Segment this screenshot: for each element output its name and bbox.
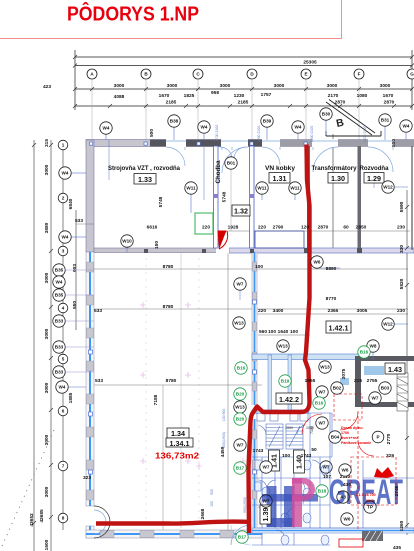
svg-text:B19: B19	[281, 379, 290, 384]
svg-text:1.42.1: 1.42.1	[329, 324, 349, 333]
svg-text:220: 220	[202, 225, 210, 231]
svg-text:W13: W13	[320, 365, 330, 370]
svg-text:435: 435	[393, 545, 401, 551]
svg-text:315: 315	[44, 139, 50, 147]
svg-text:W4: W4	[403, 124, 410, 129]
svg-text:W7: W7	[263, 465, 270, 470]
svg-text:W7: W7	[319, 390, 326, 395]
svg-text:TP: TP	[367, 505, 373, 510]
svg-text:F: F	[358, 72, 361, 77]
svg-text:8780: 8780	[166, 378, 177, 384]
svg-text:1700: 1700	[341, 431, 349, 435]
svg-text:W11: W11	[290, 186, 300, 191]
svg-text:W13: W13	[235, 405, 245, 410]
svg-text:958: 958	[211, 90, 219, 96]
svg-text:1640: 1640	[278, 329, 289, 335]
svg-text:W13: W13	[234, 321, 244, 326]
svg-text:W11: W11	[257, 186, 267, 191]
svg-text:2850: 2850	[356, 225, 367, 231]
svg-text:1928: 1928	[228, 225, 239, 231]
svg-text:5748: 5748	[158, 196, 164, 207]
svg-text:1200 2100: 1200 2100	[363, 126, 367, 143]
svg-text:1: 1	[62, 143, 65, 148]
svg-text:3880: 3880	[44, 222, 50, 233]
svg-text:1.33: 1.33	[138, 175, 152, 184]
svg-text:1550: 1550	[285, 426, 293, 430]
svg-text:500: 500	[391, 139, 397, 147]
svg-text:1080: 1080	[357, 93, 368, 99]
svg-text:2746: 2746	[394, 485, 400, 496]
svg-text:1700 2100: 1700 2100	[215, 125, 219, 142]
svg-text:PÔDORYS 1.NP: PÔDORYS 1.NP	[67, 2, 199, 26]
svg-text:323: 323	[83, 475, 91, 481]
svg-text:W4: W4	[62, 171, 69, 176]
svg-text:B38: B38	[170, 119, 179, 124]
svg-text:3000: 3000	[114, 83, 125, 89]
svg-text:1.29: 1.29	[367, 174, 381, 183]
svg-text:B04: B04	[331, 435, 340, 440]
svg-text:W4: W4	[201, 125, 208, 130]
svg-text:W4: W4	[103, 126, 110, 131]
svg-text:3000: 3000	[327, 83, 338, 89]
svg-text:P: P	[376, 435, 379, 440]
svg-text:B33: B33	[55, 345, 64, 350]
svg-text:230: 230	[397, 308, 405, 314]
svg-text:230: 230	[397, 225, 405, 231]
svg-text:560: 560	[259, 329, 267, 335]
svg-text:1230: 1230	[234, 93, 245, 99]
svg-text:6: 6	[62, 409, 65, 414]
svg-text:3: 3	[62, 249, 65, 254]
svg-text:215: 215	[354, 378, 362, 384]
svg-text:2870: 2870	[318, 225, 329, 231]
svg-text:1.43: 1.43	[388, 365, 402, 374]
svg-text:B01: B01	[227, 161, 236, 166]
svg-text:2185: 2185	[238, 100, 249, 106]
svg-text:W12: W12	[383, 322, 393, 327]
svg-text:8780: 8780	[163, 304, 174, 310]
svg-text:6616: 6616	[147, 225, 158, 231]
svg-text:W11: W11	[186, 186, 196, 191]
svg-text:25305: 25305	[303, 60, 317, 66]
svg-text:W7: W7	[237, 443, 244, 448]
svg-text:1.42.2: 1.42.2	[279, 395, 299, 404]
svg-text:3000: 3000	[44, 486, 50, 497]
svg-text:2365: 2365	[328, 308, 339, 314]
svg-text:2790: 2790	[273, 225, 284, 231]
svg-text:1600: 1600	[44, 539, 50, 550]
svg-text:1.34: 1.34	[171, 429, 185, 438]
svg-text:Transformátory: Transformátory	[312, 165, 358, 172]
svg-text:3000: 3000	[44, 272, 50, 283]
svg-text:220: 220	[258, 308, 266, 314]
svg-text:100: 100	[255, 264, 263, 270]
svg-text:150: 150	[154, 241, 160, 249]
svg-text:1260: 1260	[399, 520, 405, 531]
svg-text:100: 100	[282, 453, 290, 459]
svg-text:3000: 3000	[44, 328, 50, 339]
svg-text:W6: W6	[314, 260, 321, 265]
svg-text:3075: 3075	[341, 368, 347, 379]
svg-text:1670: 1670	[383, 93, 394, 99]
svg-text:1757: 1757	[261, 92, 272, 98]
svg-text:B33: B33	[55, 319, 64, 324]
svg-text:2170: 2170	[328, 93, 339, 99]
svg-text:1.31: 1.31	[273, 174, 287, 183]
svg-text:533: 533	[75, 218, 83, 224]
svg-text:A1 0,28 790: A1 0,28 790	[356, 493, 376, 497]
svg-text:3000: 3000	[167, 83, 178, 89]
svg-text:Rozvodňa: Rozvodňa	[360, 165, 390, 172]
svg-text:Panikové kovanie: Panikové kovanie	[341, 441, 371, 445]
svg-text:1670: 1670	[159, 93, 170, 99]
svg-text:136,73m2: 136,73m2	[155, 452, 200, 461]
svg-text:W12: W12	[383, 185, 393, 190]
svg-text:3000: 3000	[220, 83, 231, 89]
svg-text:107: 107	[323, 474, 331, 480]
svg-text:3005: 3005	[357, 308, 368, 314]
svg-text:W7: W7	[319, 421, 326, 426]
svg-text:W7: W7	[372, 396, 379, 401]
svg-text:W7: W7	[263, 499, 270, 504]
svg-text:B33: B33	[55, 370, 64, 375]
svg-text:43652: 43652	[29, 513, 35, 527]
svg-text:Strojovňa VZT , rozvodňa: Strojovňa VZT , rozvodňa	[108, 165, 181, 172]
svg-text:B17: B17	[238, 535, 247, 540]
svg-text:W4: W4	[62, 235, 69, 240]
svg-text:533: 533	[94, 308, 102, 314]
svg-text:3400: 3400	[273, 308, 284, 314]
svg-text:2770: 2770	[386, 433, 392, 444]
svg-text:W10: W10	[122, 239, 132, 244]
svg-text:1200 2100: 1200 2100	[257, 126, 261, 143]
svg-text:B16: B16	[360, 350, 369, 355]
svg-text:8: 8	[62, 516, 65, 521]
svg-text:E: E	[304, 72, 307, 77]
svg-text:W4: W4	[295, 125, 302, 130]
svg-text:5590: 5590	[399, 201, 405, 212]
svg-text:B39: B39	[263, 119, 272, 124]
svg-text:220: 220	[258, 225, 266, 231]
svg-text:2668: 2668	[200, 508, 206, 519]
svg-text:3000: 3000	[44, 164, 50, 175]
svg-text:Chodba: Chodba	[215, 160, 222, 184]
svg-text:8770: 8770	[326, 296, 337, 302]
svg-text:900: 900	[210, 489, 214, 495]
svg-text:W4: W4	[56, 280, 63, 285]
svg-text:B31: B31	[381, 118, 390, 123]
svg-text:100: 100	[210, 501, 214, 507]
svg-text:W7: W7	[237, 282, 244, 287]
svg-text:430: 430	[343, 482, 351, 488]
svg-text:B16: B16	[237, 366, 246, 371]
svg-text:8890: 8890	[326, 266, 337, 272]
svg-text:6840: 6840	[68, 198, 74, 209]
svg-text:B30: B30	[322, 112, 331, 117]
svg-text:B18: B18	[318, 489, 327, 494]
svg-text:5748: 5748	[222, 191, 228, 202]
svg-text:330: 330	[399, 245, 405, 253]
svg-text:1965: 1965	[305, 378, 316, 384]
svg-text:2185: 2185	[166, 100, 177, 106]
svg-text:1825: 1825	[184, 93, 195, 99]
svg-text:60: 60	[343, 225, 349, 231]
svg-text:3000: 3000	[380, 83, 391, 89]
svg-text:1743: 1743	[253, 448, 264, 454]
svg-text:1200 2100: 1200 2100	[310, 126, 314, 143]
svg-text:2755: 2755	[367, 378, 378, 384]
svg-text:Dosah dymu: Dosah dymu	[341, 426, 363, 430]
svg-text:3000: 3000	[44, 382, 50, 393]
svg-text:7: 7	[62, 464, 65, 469]
svg-text:600(1900): 600(1900)	[222, 432, 226, 448]
svg-text:B17: B17	[236, 466, 245, 471]
svg-text:4: 4	[62, 306, 65, 311]
svg-text:3000: 3000	[44, 434, 50, 445]
svg-text:550: 550	[72, 301, 78, 309]
svg-text:533: 533	[95, 378, 103, 384]
svg-text:2870: 2870	[335, 100, 346, 106]
svg-text:423: 423	[43, 84, 51, 90]
svg-text:42685: 42685	[39, 509, 45, 523]
svg-text:1743: 1743	[301, 453, 312, 459]
svg-text:1.30: 1.30	[331, 174, 345, 183]
svg-text:B35: B35	[55, 293, 64, 298]
svg-text:W7: W7	[323, 465, 330, 470]
svg-text:W6: W6	[344, 517, 351, 522]
svg-text:2870: 2870	[384, 100, 395, 106]
svg-text:1885: 1885	[68, 392, 74, 403]
svg-text:4088: 4088	[114, 94, 125, 100]
svg-text:7180: 7180	[310, 426, 314, 434]
svg-text:900(1900): 900(1900)	[243, 497, 247, 513]
svg-text:B16: B16	[315, 401, 324, 406]
svg-text:W6: W6	[342, 468, 349, 473]
svg-text:B35: B35	[55, 268, 64, 273]
svg-text:120: 120	[301, 225, 309, 231]
svg-text:8780: 8780	[163, 264, 174, 270]
svg-text:W8: W8	[370, 344, 377, 349]
svg-text:B20: B20	[236, 417, 245, 422]
svg-text:5820: 5820	[399, 278, 405, 289]
svg-text:1.39: 1.39	[261, 508, 270, 522]
svg-text:dvere+rez: dvere+rez	[341, 436, 358, 440]
svg-text:W13: W13	[278, 344, 288, 349]
svg-text:903: 903	[72, 264, 78, 272]
svg-text:7188: 7188	[153, 394, 159, 405]
svg-text:5: 5	[62, 357, 65, 362]
svg-text:B03: B03	[381, 386, 390, 391]
svg-text:3000: 3000	[274, 83, 285, 89]
svg-text:A3: A3	[340, 495, 346, 500]
svg-text:100: 100	[290, 329, 298, 335]
svg-text:G: G	[410, 72, 414, 77]
svg-text:1.32: 1.32	[234, 207, 248, 216]
svg-text:1.34.1: 1.34.1	[170, 439, 190, 448]
svg-text:500: 500	[149, 129, 155, 137]
svg-text:W4: W4	[59, 385, 66, 390]
svg-text:B20: B20	[236, 392, 245, 397]
svg-text:100 900: 100 900	[222, 409, 226, 422]
svg-text:VN kobky: VN kobky	[265, 165, 296, 172]
svg-text:B02: B02	[333, 386, 342, 391]
svg-text:2: 2	[62, 196, 65, 201]
svg-text:100: 100	[268, 329, 276, 335]
svg-text:329: 329	[386, 453, 394, 459]
svg-text:50: 50	[311, 447, 317, 453]
